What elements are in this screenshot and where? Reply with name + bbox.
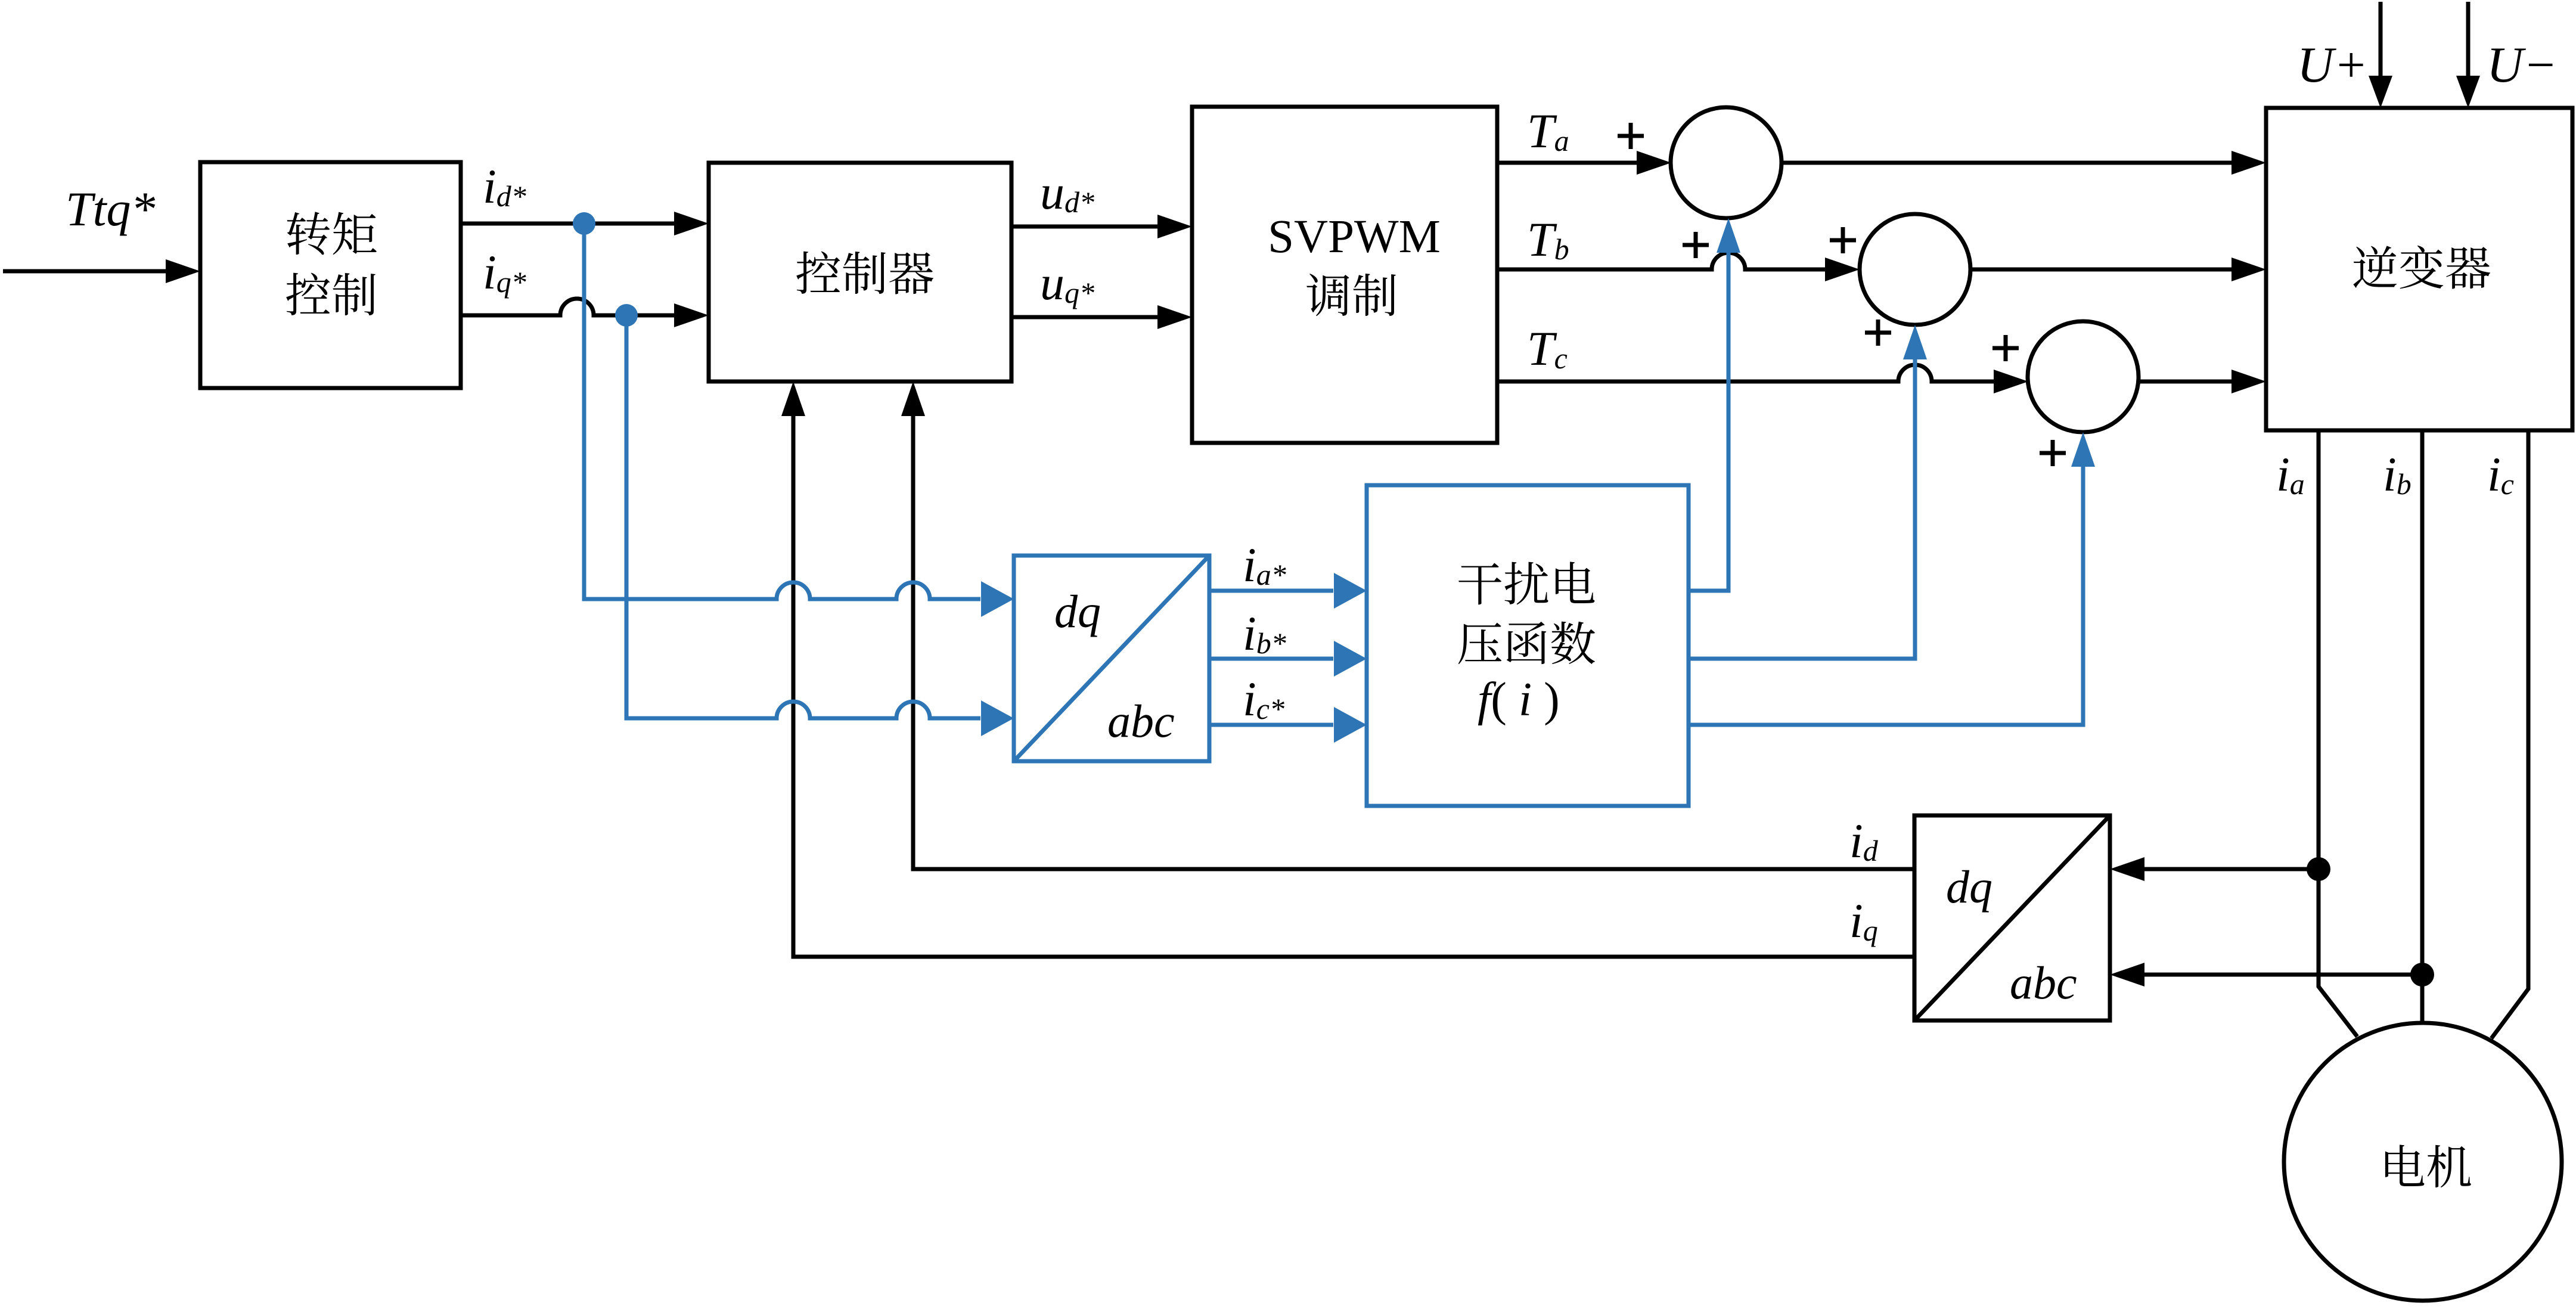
- svg-text:ib: ib: [2383, 447, 2411, 501]
- svg-text:iq: iq: [1849, 894, 1878, 948]
- wire: id* reference: [461, 159, 709, 235]
- summing junction 3 (phase c): [2028, 321, 2139, 432]
- wire: phase a from inverter to motor: [2276, 430, 2357, 1037]
- svg-text:Ta: Ta: [1527, 104, 1569, 158]
- block: dq/abc transform (blue, reference currents): [1014, 556, 1209, 761]
- wire (blue): id* tap down to dq/abc input, hops over black feedback lines: [584, 224, 1014, 617]
- svg-text:U−: U−: [2487, 37, 2558, 93]
- svg-text:U+: U+: [2297, 37, 2368, 93]
- summing junction 2 (phase b): [1860, 214, 1970, 325]
- svg-text:f( i ): f( i ): [1478, 674, 1560, 726]
- wire: ud*: [1011, 165, 1192, 238]
- node: phase a current tap (dot): [2307, 857, 2330, 881]
- plus sign at junction 2 input: [1830, 227, 1856, 253]
- svg-text:id*: id*: [483, 159, 526, 213]
- svg-text:ic: ic: [2487, 447, 2514, 501]
- block: torque control 转矩控制: [200, 162, 461, 388]
- block: inverter 逆变器: [2266, 108, 2572, 430]
- wire: junction 2 output to inverter: [1970, 258, 2266, 281]
- wire: junction 1 output to inverter: [1782, 151, 2266, 175]
- svg-text:abc: abc: [1107, 695, 1175, 747]
- svg-text:ia: ia: [2276, 447, 2305, 501]
- wire: Ttq* input: [3, 182, 200, 283]
- wire: iq feedback to controller: [781, 381, 1914, 957]
- wire: Ta to summing junction 1: [1497, 104, 1671, 175]
- wire: phase c from inverter to motor: [2487, 430, 2528, 1038]
- plus sign at junction 1 input: [1618, 123, 1644, 149]
- wire: U+ supply into inverter: [2297, 2, 2392, 108]
- svg-text:id: id: [1849, 814, 1879, 868]
- svg-text:ib*: ib*: [1243, 606, 1286, 660]
- wire: Tc to summing junction 3 (hop over blue line): [1497, 321, 2028, 393]
- wire: iq* reference (with hop over blue line): [461, 245, 709, 327]
- block: SVPWM modulation: [1192, 107, 1497, 443]
- wire: phase a sense into dq/abc: [2110, 857, 2319, 881]
- svg-text:dq: dq: [1946, 861, 1992, 913]
- svg-text:Ttq*: Ttq*: [66, 182, 155, 236]
- block: controller 控制器: [709, 163, 1011, 381]
- wire: phase b from inverter to motor: [2383, 430, 2422, 1023]
- wire: Tb to summing junction 2 (hop over blue line): [1497, 212, 1860, 281]
- block: dq/abc transform (black, measured currents): [1914, 815, 2110, 1020]
- plus sign below junction 2: [1865, 320, 1891, 346]
- wire: phase b sense into dq/abc: [2110, 963, 2422, 987]
- plus sign at junction 3 input: [1992, 335, 2019, 361]
- svg-text:SVPWM: SVPWM: [1268, 211, 1441, 263]
- wire: junction 3 output to inverter: [2139, 370, 2266, 393]
- wire: uq*: [1011, 256, 1192, 329]
- wire (blue): iq* tap down to dq/abc input, hops over black feedback lines: [626, 315, 1014, 736]
- svg-text:Tc: Tc: [1527, 321, 1568, 376]
- wire (blue): ib* into f(i): [1209, 606, 1367, 677]
- svg-text:ic*: ic*: [1243, 672, 1284, 726]
- wire (blue): f(i) output a up into summing junction 1: [1689, 218, 1740, 591]
- plus sign below junction 3: [2040, 440, 2066, 466]
- node: iq* tap (blue dot): [615, 304, 638, 327]
- node: phase b current tap (dot): [2410, 963, 2434, 987]
- svg-text:abc: abc: [2010, 957, 2077, 1009]
- plus sign below junction 1: [1683, 232, 1709, 258]
- svg-text:uq*: uq*: [1040, 256, 1094, 310]
- node: id* tap (blue dot): [573, 212, 595, 235]
- motor 电机: [2284, 1023, 2562, 1301]
- svg-text:dq: dq: [1054, 585, 1101, 637]
- svg-text:ia*: ia*: [1243, 538, 1286, 592]
- wire (blue): f(i) output b up into summing junction 2: [1689, 325, 1927, 659]
- block: disturbance voltage function f(i) 干扰电压函数 (blue): [1367, 485, 1689, 806]
- wire (blue): ic* into f(i): [1209, 672, 1367, 743]
- wire: U- supply into inverter: [2456, 2, 2558, 108]
- svg-text:ud*: ud*: [1040, 165, 1094, 219]
- wire (blue): ia* into f(i): [1209, 538, 1367, 609]
- summing junction 1 (phase a): [1671, 107, 1782, 218]
- svg-text:iq*: iq*: [483, 245, 526, 299]
- wire: id feedback to controller: [901, 381, 1914, 869]
- wire (blue): f(i) output c up into summing junction 3: [1689, 432, 2095, 725]
- svg-text:Tb: Tb: [1527, 212, 1569, 266]
